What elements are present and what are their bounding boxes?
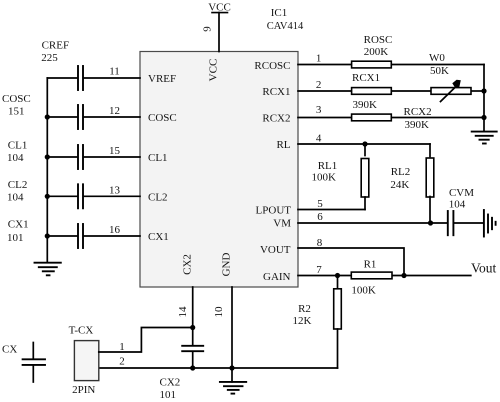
pin number 4 — [316, 133, 322, 145]
svg-text:1: 1 — [119, 341, 125, 353]
svg-text:CL2: CL2 — [8, 179, 28, 191]
svg-text:GND: GND — [221, 253, 233, 277]
svg-text:W0: W0 — [429, 52, 445, 64]
node junction 390K to bus — [481, 115, 486, 120]
wire pin 16 row — [47, 235, 140, 237]
wire pin 15 row — [47, 156, 140, 158]
resistor 390K (RCX2) — [352, 99, 432, 131]
capacitor CREF 225 — [41, 40, 83, 91]
svg-text:5: 5 — [317, 198, 323, 210]
capacitor CX — [2, 343, 45, 383]
svg-text:200K: 200K — [364, 46, 389, 58]
ground bottom center — [220, 368, 246, 394]
svg-text:101: 101 — [7, 232, 24, 244]
connector T-CX 2PIN — [69, 325, 99, 396]
capacitor CX1 101 — [7, 219, 83, 249]
wire VCC to pin 9 — [218, 13, 220, 52]
svg-text:2: 2 — [119, 356, 125, 368]
node junction 15 — [45, 154, 50, 159]
svg-text:COSC: COSC — [148, 112, 177, 124]
node junction RL2 bottom — [428, 220, 433, 225]
svg-text:CX2: CX2 — [160, 376, 181, 388]
svg-text:VM: VM — [273, 218, 291, 230]
svg-text:Vout: Vout — [471, 261, 497, 276]
svg-text:VCC: VCC — [208, 59, 220, 82]
resistor ROSC 200K — [352, 34, 393, 68]
capacitor CL2 104 — [7, 179, 83, 208]
pin name RCX2 — [262, 113, 290, 125]
wire pin 8 VOUT row — [298, 248, 404, 276]
op-amp U1 IC1 CAV414 body — [140, 52, 298, 288]
pin number 6 — [317, 211, 323, 223]
wire pin 14 CX2 — [192, 287, 194, 328]
wire left bus — [46, 78, 48, 262]
node junction CX2 pin14 — [190, 325, 195, 330]
capacitor COSC 151 — [2, 93, 83, 129]
svg-text:24K: 24K — [390, 179, 409, 191]
svg-text:CX1: CX1 — [148, 231, 169, 243]
wire pin 4 row — [298, 143, 430, 145]
svg-text:T-CX: T-CX — [69, 325, 94, 337]
pin name CL2 — [148, 192, 168, 204]
svg-text:390K: 390K — [405, 119, 430, 131]
wire bottom rail — [99, 367, 338, 369]
pin number 13 — [109, 184, 121, 196]
svg-text:101: 101 — [160, 389, 177, 401]
svg-text:VOUT: VOUT — [260, 244, 291, 256]
svg-text:11: 11 — [109, 66, 120, 78]
svg-text:14: 14 — [177, 306, 189, 318]
svg-text:RCX1: RCX1 — [352, 72, 380, 84]
pin name CL1 — [148, 152, 168, 164]
svg-text:R1: R1 — [364, 259, 377, 271]
pin number 9 — [202, 26, 214, 32]
node junction 13 — [45, 194, 50, 199]
svg-text:104: 104 — [7, 192, 24, 204]
pin number 1 connector — [119, 341, 125, 353]
pin number 2 — [316, 79, 322, 91]
node junction GND bottom — [229, 365, 234, 370]
pin number 8 — [317, 237, 323, 249]
svg-text:16: 16 — [109, 224, 121, 236]
svg-text:RL: RL — [276, 139, 290, 151]
node junction pot to bus — [481, 88, 486, 93]
svg-text:50K: 50K — [430, 65, 449, 77]
wire right bus — [483, 65, 485, 132]
pin name CX1 — [148, 231, 169, 243]
pin number 5 — [317, 198, 323, 210]
svg-text:100K: 100K — [311, 172, 336, 184]
svg-text:COSC: COSC — [2, 93, 31, 105]
wire pin 10 GND — [231, 287, 233, 368]
wire pin 11 row — [47, 77, 140, 79]
svg-text:CL2: CL2 — [148, 192, 168, 204]
pin number 14 — [177, 306, 189, 318]
resistor RL2 24K — [390, 144, 433, 223]
svg-text:2: 2 — [316, 79, 322, 91]
ground right top — [472, 132, 497, 144]
svg-text:6: 6 — [317, 211, 323, 223]
pin number 3 — [316, 104, 322, 116]
wire pin 13 row — [47, 195, 140, 197]
pin number 7 — [316, 264, 322, 276]
pin name GND — [221, 253, 233, 277]
svg-text:CL1: CL1 — [8, 140, 28, 152]
svg-text:10: 10 — [213, 306, 225, 318]
svg-text:R2: R2 — [298, 303, 311, 315]
svg-text:12: 12 — [109, 105, 120, 117]
svg-text:CX: CX — [2, 344, 17, 356]
pin name VM — [273, 218, 291, 230]
svg-text:CAV414: CAV414 — [267, 21, 304, 32]
wire pin 3 row — [298, 117, 484, 119]
svg-text:RL2: RL2 — [391, 166, 411, 178]
svg-text:2PIN: 2PIN — [72, 384, 95, 396]
node junction 12 — [45, 114, 50, 119]
svg-text:RCX2: RCX2 — [404, 106, 432, 118]
svg-text:VCC: VCC — [208, 2, 231, 14]
svg-text:13: 13 — [109, 184, 121, 196]
power VCC symbol — [208, 2, 231, 14]
pin number 12 — [109, 105, 120, 117]
resistor R1 100K — [351, 259, 392, 297]
ground left — [35, 263, 61, 276]
svg-text:100K: 100K — [351, 285, 376, 297]
pin number 10 — [213, 306, 225, 318]
svg-text:7: 7 — [316, 264, 322, 276]
label Vout — [471, 261, 497, 276]
pin name GAIN — [263, 271, 291, 283]
wire pin 1 row — [298, 64, 484, 66]
svg-text:9: 9 — [202, 26, 214, 32]
svg-text:CX2: CX2 — [182, 254, 194, 275]
ground sideways right — [484, 210, 496, 237]
pin name RL — [276, 139, 290, 151]
pin name LPOUT — [256, 205, 292, 217]
svg-text:IC1: IC1 — [271, 7, 288, 19]
wire CVM to ground — [455, 222, 483, 224]
svg-text:390K: 390K — [353, 99, 378, 111]
svg-text:12K: 12K — [293, 315, 312, 327]
wire pin 2 row — [298, 90, 484, 92]
svg-text:CL1: CL1 — [148, 152, 168, 164]
resistor R2 12K — [293, 276, 342, 369]
label IC1 — [271, 7, 288, 19]
svg-text:1: 1 — [316, 53, 322, 65]
svg-text:15: 15 — [109, 145, 121, 157]
svg-text:CX1: CX1 — [8, 219, 29, 231]
resistor RCX1 — [352, 72, 392, 94]
svg-text:VREF: VREF — [148, 73, 176, 85]
svg-text:RCX1: RCX1 — [262, 86, 290, 98]
svg-text:RL1: RL1 — [318, 160, 338, 172]
wire connector pin 1 — [99, 328, 193, 353]
svg-text:CREF: CREF — [42, 40, 70, 52]
svg-text:151: 151 — [8, 106, 25, 118]
node junction CX2 bottom — [190, 365, 195, 370]
wire pin 5 row — [298, 209, 365, 211]
node junction 16 — [45, 233, 50, 238]
wire pin 12 row — [47, 116, 140, 118]
node junction VOUT to output — [401, 273, 406, 278]
svg-text:8: 8 — [317, 237, 323, 249]
wire pin 7 GAIN row — [298, 275, 471, 277]
pin name VOUT — [260, 244, 291, 256]
svg-text:4: 4 — [316, 133, 322, 145]
pin number 2 connector — [119, 356, 125, 368]
label CAV414 — [267, 21, 304, 32]
pin number 11 — [109, 66, 120, 78]
svg-text:104: 104 — [449, 199, 466, 211]
capacitor CVM 104 — [448, 187, 474, 235]
svg-text:LPOUT: LPOUT — [256, 205, 292, 217]
capacitor CX2 101 — [160, 328, 204, 402]
pin name RCOSC — [254, 60, 290, 72]
pin name VREF — [148, 73, 176, 85]
capacitor CL1 104 — [7, 140, 83, 170]
wire pin 6 VM row — [298, 222, 447, 224]
pin number 16 — [109, 224, 121, 236]
pin name CX2 — [182, 254, 194, 275]
node junction RL1 top — [362, 141, 367, 146]
pin number 15 — [109, 145, 121, 157]
svg-text:3: 3 — [316, 104, 322, 116]
svg-text:ROSC: ROSC — [364, 34, 393, 46]
svg-text:225: 225 — [41, 52, 58, 64]
svg-text:CVM: CVM — [449, 187, 474, 199]
svg-text:104: 104 — [7, 152, 24, 164]
potentiometer W0 50K — [429, 52, 471, 102]
pin name COSC — [148, 112, 177, 124]
pin name RCX1 — [262, 86, 290, 98]
pin name VCC — [208, 59, 220, 82]
svg-text:GAIN: GAIN — [263, 271, 291, 283]
svg-text:RCX2: RCX2 — [262, 113, 290, 125]
resistor RL1 100K — [311, 144, 368, 210]
svg-text:RCOSC: RCOSC — [254, 60, 290, 72]
node junction R2 top — [335, 273, 340, 278]
pin number 1 — [316, 53, 322, 65]
